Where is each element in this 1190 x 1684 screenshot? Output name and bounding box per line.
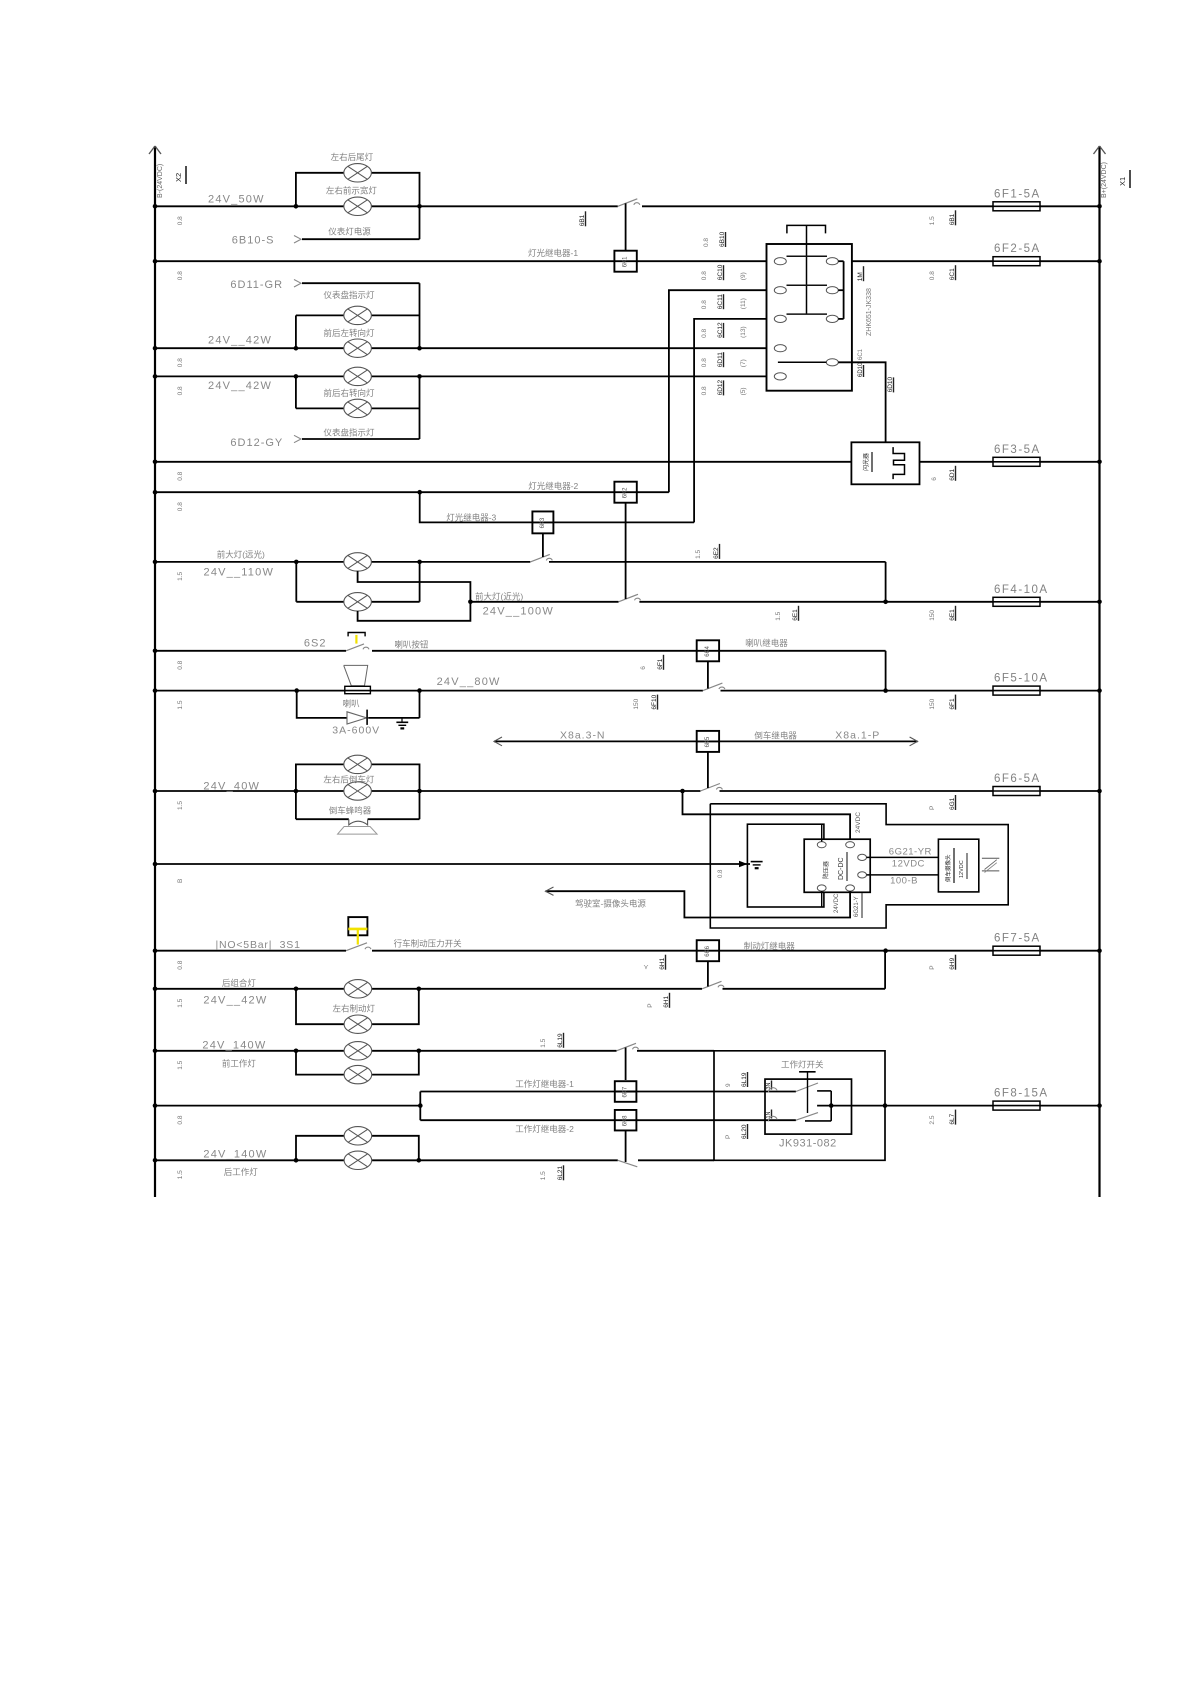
wire DC-DC bottom-left pin to housing [821,891,823,907]
wire-label above switch [703,238,710,247]
ground symbol camera [751,862,763,869]
label 6B10-S with arrow [232,235,301,247]
node row10 mid junction [883,688,888,693]
wire relay3 row from row6 tap [420,492,533,522]
svg-text:6K8: 6K8 [623,1115,629,1126]
wire work relay2 row [420,1119,614,1121]
svg-text:6D11-GR: 6D11-GR [230,279,283,291]
node row8 mid junction [883,600,888,605]
wire row17 relay feed from bus [155,1105,420,1107]
fuse 6F6-5A [993,773,1041,796]
wire row5 flasher to fuse 6F3 [920,461,994,463]
work switch pin marks [766,1081,772,1090]
wire row15 brake lamps [155,988,702,990]
svg-text:0.8: 0.8 [718,869,724,878]
wire-label row1 fuse side [929,216,936,225]
wire flasher control from switch [838,362,885,442]
arrow into camera housing [739,861,748,867]
fuse 6F3-5A [993,444,1041,467]
wire-label row15 before contact [647,1003,654,1007]
wire 6D11-GR lead [302,282,420,284]
svg-text:工作灯继电器-2: 工作灯继电器-2 [515,1124,574,1134]
wire row1 24V_50W tail-marker feed [155,205,618,207]
switch pin labels left [701,271,708,280]
node row1 right-bus junction [1097,204,1102,209]
svg-text:后工作灯: 后工作灯 [224,1167,259,1177]
svg-text:B-(24VDC): B-(24VDC) [157,164,164,198]
wire DC-DC top-left pin to housing [821,824,823,841]
wire-label 0.8 row6 [177,502,184,511]
svg-text:1.5: 1.5 [177,1170,184,1179]
wire diode branch [297,691,347,718]
svg-text:6F7-5A: 6F7-5A [994,933,1041,945]
node row3 left-bus junction [153,346,158,351]
svg-text:(7): (7) [740,359,747,367]
ground symbol at diode [396,718,408,729]
right bus B+ vertical [1094,146,1106,1197]
wire row6 left bus through relay2 then up to switch [155,491,614,493]
wire-label row8 fuse side [929,610,936,621]
svg-text:左右后倒车灯: 左右后倒车灯 [323,775,375,785]
wire relay3 to its contact [542,533,544,557]
node row7 left-bus junction [153,560,158,565]
svg-text:X8a.3-N: X8a.3-N [560,730,606,742]
svg-text:6: 6 [640,666,647,670]
wire 6D12-GY lead [302,438,420,440]
lamp front work lamp 2 [344,1065,372,1083]
svg-text:0.8: 0.8 [177,960,184,969]
svg-text:左右制动灯: 左右制动灯 [333,1004,376,1014]
wire-label row7 mid [695,549,702,558]
labels under DC-DC [834,893,862,918]
camera lens symbol [982,858,999,872]
wire-label row8 near contact [775,611,782,620]
lamp reversing lamp rear [344,755,372,773]
wire 12VDC output 6G21-YR [867,856,939,858]
svg-text:X1: X1 [1118,177,1127,186]
DC-DC pins [817,842,866,892]
switch turn selector arm [778,361,826,363]
wire row13 ground lead [155,863,750,865]
svg-text:0.8: 0.8 [177,502,184,511]
svg-text:24V__42W: 24V__42W [208,335,272,347]
svg-text:0.8: 0.8 [177,386,184,395]
wire row11 X8a signal line [494,740,918,742]
node row10 branch left [294,688,299,693]
lamp left-right rear tail lamps [344,164,372,182]
work switch pin labels [725,1083,732,1087]
wire headlamp2 parallel branch [295,562,297,602]
svg-text:倒车继电器: 倒车继电器 [754,731,797,741]
node row4 left-bus junction [153,374,158,379]
node row15 left-bus junction [153,987,158,992]
wire work relay1 to contact [625,1048,627,1081]
svg-text:前后左转向灯: 前后左转向灯 [324,328,376,338]
svg-text:24VDC: 24VDC [834,893,840,913]
work lamp switch outer box [714,1051,885,1161]
node row7 branch left [294,560,299,565]
node row5 left-bus junction [153,460,158,465]
label 6D11-GR with arrow [230,279,301,291]
pressure switch 3S1 [346,917,371,951]
fuse 6F5-10A [993,673,1049,696]
relay 6K5 reversing relay [697,731,719,752]
wire row18 contact to switch box [638,1159,714,1161]
svg-text:24VDC: 24VDC [855,812,862,833]
svg-text:左右后尾灯: 左右后尾灯 [331,152,374,162]
camera inner housing box [747,824,824,907]
svg-text:前工作灯: 前工作灯 [222,1058,257,1068]
work lamp switch inner box [765,1079,852,1134]
relay 6K3 light relay-3 [532,511,553,533]
wire row15 contact to mid corner [723,988,886,990]
node row12 branch left [294,789,299,794]
lamp headlamp left (dual filament) [344,553,372,571]
wire 6D12 vertical [419,376,421,439]
wire 6B10-S lead [302,238,420,240]
wire brake lamp branch bottom [296,989,419,1024]
work switch output bracket [805,1091,885,1121]
svg-text:6G21-YR: 6G21-YR [889,846,932,857]
svg-text:喇叭按钮: 喇叭按钮 [394,639,429,649]
switch left pins [774,258,786,380]
wire work relay1 row [420,1091,614,1093]
wire row7 contact to corner [549,561,886,563]
node row1 left-bus junction [153,204,158,209]
wire row5 left bus to flasher [155,461,851,463]
node row10 right-bus junction [1097,688,1102,693]
node row8 right-bus junction [1097,600,1102,605]
svg-text:P: P [725,1135,732,1139]
svg-text:6F3-5A: 6F3-5A [994,444,1041,456]
node row13 left-bus junction [153,862,158,867]
svg-text:0.8: 0.8 [701,271,708,280]
svg-text:0.8: 0.8 [929,271,936,280]
switch right pins [826,258,838,366]
svg-text:12VDC: 12VDC [892,859,925,870]
svg-text:1.5: 1.5 [929,216,936,225]
wire buzzer branch [296,791,420,819]
wire work relay2 to contact [625,1130,627,1162]
wire-label 0.8 row5 [177,471,184,480]
svg-text:0.8: 0.8 [177,216,184,225]
fuse 6F1-5A [993,188,1041,211]
svg-text:24V__110W: 24V__110W [204,566,275,578]
arrow camera power [546,887,554,895]
wire row12 contact to fuse 6F6 [720,790,994,792]
wire-label row9 before relay [640,666,647,670]
svg-text:仪表灯电源: 仪表灯电源 [328,227,371,237]
svg-text:(5): (5) [740,387,747,395]
left bus label X2 [174,166,186,184]
svg-text:24V_140W: 24V_140W [203,1148,267,1160]
svg-text:后组合灯: 后组合灯 [222,978,257,988]
svg-text:24V_50W: 24V_50W [208,194,265,206]
node row16 branch left [294,1049,299,1054]
lamp front-rear right turn lamps [344,367,372,385]
svg-text:前大灯(远光): 前大灯(远光) [217,550,265,560]
node row18 branch right [417,1158,422,1163]
wire-label 0.8 row1 [177,216,184,225]
svg-text:1.5: 1.5 [540,1038,547,1047]
svg-text:6F6-5A: 6F6-5A [994,773,1041,785]
diode 3A-600V [347,710,367,725]
wire-label 1.5 row12 [177,801,184,810]
node row3 branch right [417,346,422,351]
node row18 branch left [294,1158,299,1163]
svg-text:工作灯继电器-1: 工作灯继电器-1 [515,1079,574,1089]
svg-text:0.8: 0.8 [177,358,184,367]
switch right tie bus [838,261,843,319]
svg-text:150: 150 [929,610,936,621]
svg-text:0.8: 0.8 [177,471,184,480]
svg-text:JK931-082: JK931-082 [779,1138,837,1150]
wire row3 left turn feed to switch pin [155,347,774,349]
work switch wires inside [765,1092,796,1121]
wire-label 0.8 row2 [177,271,184,280]
node row3 branch left [294,346,299,351]
DC-DC internal labels [822,852,847,881]
buzzer reversing buzzer [338,819,378,834]
svg-text:24V__80W: 24V__80W [437,676,501,688]
relay 6K1 light relay-1 [614,251,636,272]
node row4 branch left [294,374,299,379]
wire row2 switch output to fuse 6F2 [838,260,993,262]
relay 6K6 brake lamp relay [697,940,719,961]
svg-text:150: 150 [929,698,936,709]
svg-text:0.8: 0.8 [701,358,708,367]
wire-label row2 fuse side [929,271,936,280]
svg-text:灯光继电器-2: 灯光继电器-2 [528,481,578,491]
svg-text:≺: ≺ [643,964,650,970]
camera 24VDC feed from row12 [683,791,851,839]
svg-text:6K2: 6K2 [623,487,629,498]
wire indicator2 branch [295,376,297,408]
node row18 left-bus junction [153,1158,158,1163]
wire 6B10 feed vertical [419,206,421,239]
node row14 right-bus junction [1097,948,1102,953]
svg-text:驾驶室-摄像头电源: 驾驶室-摄像头电源 [575,899,646,909]
node row17 left-bus junction [153,1103,158,1108]
pushbutton 6S2 horn button [346,633,369,651]
svg-text:1.5: 1.5 [177,998,184,1007]
lamp brake lamp 2 [344,1015,372,1033]
horn speaker symbol [344,665,371,693]
switch handle bracket [787,225,826,314]
node row6 relay3 tap [417,490,422,495]
node row15 branch left [294,987,299,992]
node row17 split [418,1103,423,1108]
wire indicator1 branch [296,314,420,316]
node row5 right-bus junction [1097,460,1102,465]
wire row1 after contact to fuse 6F1 [642,205,993,207]
wire reversing lamp branch top [296,764,420,791]
svg-text:DC-DC: DC-DC [838,857,845,880]
wire-label 0.8 row14 [177,960,184,969]
work switch contact 1 [768,1083,818,1093]
wire row10 fuse to bus [1040,690,1100,692]
relay 6K4 horn relay [697,640,719,661]
node row2 left-bus junction [153,259,158,264]
lamp brake lamp (on wire) [344,980,372,998]
svg-text:降压器: 降压器 [822,861,830,879]
wire output fuse to bus [1040,1105,1100,1107]
svg-text:仪表盘指示灯: 仪表盘指示灯 [324,290,376,300]
svg-text:6K1: 6K1 [623,256,629,267]
wire-label 0.8 row9 [177,660,184,669]
wire-label row5 fuse side [931,477,938,481]
wire-label 6B1 row1 mid [579,211,586,226]
wire relay1 link vertical [625,203,627,250]
wire row10 horn supply [155,690,703,692]
wire-label 1.5 row15 [177,998,184,1007]
wire-label 1.5 row16 [177,1060,184,1069]
node bracket output [829,1103,834,1108]
svg-text:闪光器: 闪光器 [862,453,870,471]
left bus B- vertical [149,146,161,1197]
fuse 6F4-10A [993,584,1049,607]
svg-text:0.8: 0.8 [701,328,708,337]
wire row12 fuse to bus [1040,790,1100,792]
DC-DC converter box [804,839,870,892]
wire-label 0.8 row17 [177,1115,184,1124]
svg-text:工作灯开关: 工作灯开关 [781,1060,824,1070]
lamp front-rear left turn lamps [344,339,372,357]
svg-text:24V__42W: 24V__42W [208,380,272,392]
svg-text:1.5: 1.5 [695,549,702,558]
svg-text:喇叭: 喇叭 [343,698,361,708]
wire row8 contact to fuse 6F4 [639,601,993,603]
flasher square-wave symbol [893,447,904,479]
svg-text:P: P [929,806,936,810]
wire-label row18 before contact [540,1171,547,1180]
lamp rear work lamp 2 [344,1127,372,1145]
svg-text:24V_140W: 24V_140W [202,1039,266,1051]
wire row8 fuse to bus [1040,601,1100,603]
svg-text:1.5: 1.5 [540,1171,547,1180]
lamp instrument cluster indicator (right turn) [344,399,372,417]
svg-text:P: P [929,965,936,969]
node row1 branch right [417,204,422,209]
wire row7 corner down to row8 node [885,562,887,602]
wire row5 fuse to bus [1040,461,1100,463]
wire-label row14 fuse side [929,965,936,969]
svg-text:0.8: 0.8 [177,1115,184,1124]
svg-text:6F4-10A: 6F4-10A [994,584,1049,596]
svg-text:X8a.1-P: X8a.1-P [835,730,880,742]
svg-text:6F2-5A: 6F2-5A [994,243,1041,255]
camera enclosure outline [710,804,1008,928]
lamp instrument cluster indicator (left turn) [344,306,372,324]
wire output to fuse 6F8 [885,1105,993,1107]
wire-label row12 fuse side [929,806,936,810]
svg-text:左右前示宽灯: 左右前示宽灯 [326,186,378,196]
svg-text:150: 150 [633,698,640,709]
node row15 branch right [417,987,422,992]
wire lamp1 low-beam pigtail [358,571,471,602]
camera box internal labels [944,848,967,883]
svg-text:灯光继电器-3: 灯光继电器-3 [446,513,496,523]
svg-text:0.8: 0.8 [177,660,184,669]
svg-text:24V__42W: 24V__42W [203,994,267,1006]
svg-text:2.5: 2.5 [929,1115,936,1124]
node row10 branch right [417,688,422,693]
wire-label 1.5 row7 [177,571,184,580]
svg-text:9: 9 [725,1083,732,1087]
svg-text:(13): (13) [740,326,747,338]
svg-text:B+(24VDC): B+(24VDC) [1101,162,1108,198]
wire front work lamp branch [296,1051,419,1075]
wire-label 0.8 row13 [177,879,184,883]
node row6 left-bus junction [153,490,158,495]
svg-text:12VDC: 12VDC [959,860,965,878]
relay 6K2 light relay-2 [614,482,636,503]
wire horn relay to contact [707,661,709,688]
svg-text:1.5: 1.5 [177,1060,184,1069]
svg-text:6D12-GY: 6D12-GY [230,437,283,449]
svg-text:1.5: 1.5 [775,611,782,620]
wire row18 rear work lamps [155,1159,618,1161]
wire row15 corner up to row14 [884,951,886,989]
svg-text:6F1-5A: 6F1-5A [994,188,1041,200]
node row12 right-bus junction [1097,789,1102,794]
lamp rear work lamp (on wire) [344,1151,372,1169]
wire row9 horn button row [155,650,346,652]
wire-label row17 fuse side [929,1115,936,1124]
fuse 6F8-15A [993,1088,1049,1111]
svg-text:制动灯继电器: 制动灯继电器 [744,941,796,951]
svg-text:P: P [647,1003,654,1007]
svg-text:B: B [177,879,184,883]
camera power return wire [546,891,851,917]
node row9 left-bus junction [153,649,158,654]
node row12 camera tap [680,789,685,794]
svg-text:6F8-15A: 6F8-15A [994,1088,1049,1100]
svg-text:1.5: 1.5 [177,801,184,810]
wire row14 fuse to bus [1040,950,1100,952]
svg-text:倒车蜂鸣器: 倒车蜂鸣器 [329,806,372,816]
lamp headlamp right (dual filament) [344,593,372,611]
svg-text:6G21-Y: 6G21-Y [854,896,860,917]
wire-label row16 before contact [540,1038,547,1047]
wire relay2 to its contact [625,503,627,599]
wire row4 right turn feed to switch pin [155,375,774,377]
wire split vertical [419,1092,421,1121]
node row12 branch right [417,789,422,794]
svg-text:0.8: 0.8 [703,238,710,247]
node output at outer box [883,1103,888,1108]
node row12 left-bus junction [153,789,158,794]
work switch actuator [799,1072,816,1113]
arrow left X8a.3-N [494,737,502,746]
svg-text:行车制动压力开关: 行车制动压力开关 [394,938,463,948]
wire-label row14 before relay [643,964,650,970]
right bus label X1 [1118,170,1130,188]
node row16 left-bus junction [153,1049,158,1054]
camera box [938,839,978,892]
svg-text:前后右转向灯: 前后右转向灯 [324,388,376,398]
svg-text:3A-600V: 3A-600V [332,725,380,737]
svg-text:24V_40W: 24V_40W [203,781,260,793]
svg-text:6S2: 6S2 [304,638,327,650]
svg-text:0.8: 0.8 [701,386,708,395]
wire row12 reversing lamp supply [155,790,700,792]
fuse 6F7-5A [993,933,1041,956]
wire row2 fuse to bus [1040,260,1100,262]
svg-text:倒车摄像头: 倒车摄像头 [944,854,952,882]
svg-text:24V__100W: 24V__100W [483,606,554,618]
node row2 right-bus junction [1097,259,1102,264]
